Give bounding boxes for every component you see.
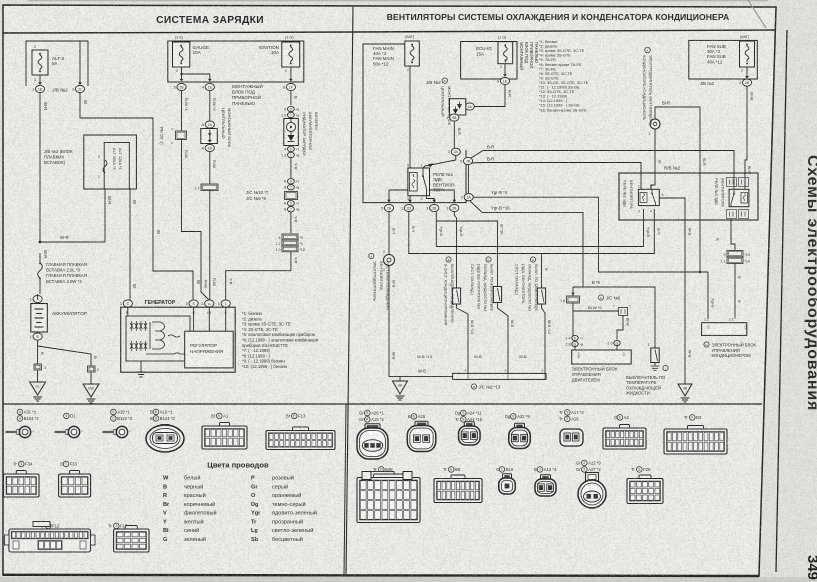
- connector 1F: [286, 83, 295, 90]
- connector 9B: [450, 114, 459, 121]
- connector 1F2: [201, 184, 218, 191]
- connector 2B b: [430, 204, 439, 211]
- AC control unit: [702, 323, 747, 336]
- ground DL: [30, 382, 46, 395]
- switch C temp No2: [493, 287, 501, 303]
- wire W: [80, 93, 193, 300]
- wire R-Bl to generator: [209, 191, 211, 300]
- connector 1A: [205, 121, 214, 128]
- relay block R/B No2: [619, 173, 758, 220]
- wire B: [290, 91, 292, 105]
- connector B battery: [33, 333, 42, 340]
- scan artifact diagonal: [748, 0, 766, 28]
- wire B to AC amp: [734, 264, 736, 319]
- wire Bl motor bottom to relay2: [651, 129, 655, 189]
- connector pins *5 *6: [288, 106, 295, 111]
- relay2 pin5 wire: [659, 198, 685, 384]
- wire B-Y to motor: [388, 212, 390, 255]
- motor condenser fan: [650, 119, 660, 129]
- motor cooling fan: [384, 255, 395, 266]
- connector pins below indicator: [288, 146, 295, 151]
- wire Ygr-B *4 to AC amp: [473, 197, 708, 318]
- wire B-R branch 2: [471, 163, 641, 190]
- junction J/C No5: [598, 295, 603, 300]
- wires inside panel box: [181, 67, 183, 80]
- fusible link main 2.0L/3.0W: [38, 263, 43, 278]
- connector 1B: [177, 83, 186, 90]
- switch D temp: [537, 288, 545, 304]
- connector 2B a: [384, 204, 393, 211]
- connector 1E: [205, 83, 214, 90]
- instrument panel junction box: [168, 41, 304, 82]
- connector 8F1: [572, 287, 574, 296]
- wire B to switch3: [541, 254, 543, 289]
- connector stack 4F2/9F2/4F3: [282, 234, 298, 240]
- engine ECU pins: [572, 335, 578, 340]
- frame bottom emphasis: [3, 575, 759, 576]
- wire B relay3 out: [731, 219, 735, 250]
- junction J/C No10/No9: [288, 179, 295, 184]
- engine ECU box: [572, 350, 632, 364]
- wire branch to second ground: [38, 346, 91, 384]
- fuse GAUGE 10A: [173, 36, 210, 74]
- relay No1 fan relay: [408, 168, 430, 196]
- connector IG: [205, 300, 214, 307]
- connector A battery: [33, 295, 42, 302]
- relay3 plug contacts: [727, 178, 737, 187]
- inline connector right ground: [88, 366, 96, 372]
- wire R-Bl to 1F2: [209, 152, 211, 184]
- wire B-R from ECU-IG: [474, 85, 505, 107]
- wire Ygr-B *16: [470, 201, 583, 287]
- sidebar rule: [776, 30, 787, 572]
- central junction block: [201, 129, 218, 144]
- fuse ALT-S 5A: [32, 45, 64, 82]
- connector 1A out: [464, 194, 473, 201]
- switch output wires W-B: [457, 304, 469, 373]
- connector C: [123, 300, 132, 307]
- wire fuse to relay1: [409, 66, 411, 168]
- wire Y-R to generator L: [226, 252, 291, 300]
- ground DW: [83, 384, 99, 397]
- wire Y-R to stack: [290, 212, 292, 233]
- connector 1B2: [205, 144, 214, 151]
- connector panel divider: [344, 404, 346, 575]
- wire Ygr-B to switch1: [454, 212, 456, 288]
- rectifier diodes: [130, 321, 133, 331]
- voltage regulator: [185, 331, 234, 368]
- stator coil: [152, 322, 165, 349]
- connector 2B fan sub: [742, 79, 751, 86]
- inline connector left ground: [34, 364, 42, 370]
- connector 7B: [463, 157, 472, 164]
- connector 2Q: [404, 204, 413, 211]
- wire W-R to link box: [104, 189, 106, 242]
- wire W-B motor to ground: [389, 266, 400, 382]
- ground cooling fan: [393, 381, 408, 394]
- connector A31/B104 ring: [17, 409, 23, 415]
- charge indicator: [284, 119, 299, 146]
- relay1 output wires: [409, 196, 411, 203]
- ground right W-B: [678, 384, 692, 396]
- junction connector J/C No2 bus: [453, 373, 546, 379]
- wires pins into generator: [127, 307, 129, 316]
- scan edge bands: [0, 577, 817, 582]
- connector stack 4F2 13/14: [727, 251, 743, 257]
- relay No2: [638, 189, 659, 205]
- wire Bl-W: [745, 86, 747, 189]
- switch coolant temperature: [651, 348, 659, 363]
- generator inner box: [126, 316, 190, 361]
- wire Bl-W to pin16: [617, 316, 623, 340]
- wire B-R: [453, 113, 455, 115]
- junction block J/B No2 bracket: [26, 41, 88, 86]
- fuse FAN SUB: [740, 35, 755, 73]
- connector 2A: [451, 148, 460, 155]
- wire to relay1 pin1: [423, 155, 456, 168]
- fuse FAN MAIN: [405, 35, 420, 72]
- wire Ygr-B relay2 coil: [436, 209, 643, 247]
- connector 1B: [35, 85, 44, 92]
- node W-R junction: [39, 241, 42, 244]
- header underline right: [353, 30, 775, 32]
- connector 1E: [500, 77, 509, 84]
- junction block J/B No2 outline: [363, 44, 466, 203]
- connector D1 ring: [64, 413, 70, 419]
- generator internal ground: [140, 361, 142, 372]
- wire fuse to 1B: [39, 75, 41, 84]
- connector L: [221, 300, 230, 307]
- wire Bl-W *5: [572, 303, 574, 337]
- wire B-R branch 1: [471, 151, 734, 190]
- fuse ECU-IG 15A: [498, 36, 513, 70]
- fusible link box J/B No2: [84, 135, 137, 189]
- ground switch: [654, 363, 656, 367]
- fuse ALT 100A/120A: [103, 160, 107, 173]
- wire R-Bl 1: [181, 91, 183, 131]
- wire battery ground: [37, 294, 39, 299]
- wire Bl-R motor top: [655, 107, 700, 272]
- wire B *9: [573, 287, 655, 348]
- vertical section divider: [346, 7, 353, 575]
- wire Y-R: [290, 145, 292, 148]
- switch B pressure: [452, 288, 460, 304]
- horizontal divider above connector panel: [3, 403, 762, 405]
- connector 21: [75, 85, 84, 92]
- battery: [31, 304, 48, 333]
- connector 2B c: [450, 204, 459, 211]
- connector S: [189, 300, 198, 307]
- wire Ygr-B/Bl to switch2: [435, 212, 437, 247]
- central junction block box: [450, 99, 466, 115]
- wire B-Y to relay2: [409, 209, 655, 254]
- wire W-R horizontal: [40, 241, 105, 243]
- wire W-R: [39, 93, 41, 242]
- connector A19/B122 ring: [111, 409, 117, 415]
- wire R-Bl 1 lower: [182, 140, 209, 300]
- junction block J/B No2 (fan sub): [689, 40, 758, 79]
- header underline left: [3, 32, 353, 33]
- junction connector C: [619, 308, 628, 316]
- generator box: [121, 307, 236, 372]
- wire R-Bl 2: [209, 91, 211, 121]
- rotor winding: [168, 335, 180, 337]
- wire W from link box: [129, 189, 131, 303]
- wire W-B to JC2: [400, 375, 453, 377]
- relay No3: [729, 189, 749, 206]
- fuse IGNITION 10A: [259, 36, 300, 74]
- junction J/C No1: [176, 131, 187, 140]
- instrument panel block (ECU-IG): [461, 42, 517, 80]
